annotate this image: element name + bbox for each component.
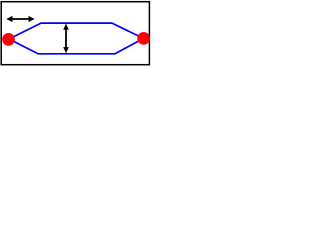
wire top path (blue): [9, 23, 144, 39]
node left (red dot): [2, 33, 15, 46]
horizontal double arrow: [6, 16, 34, 22]
node right (red dot): [137, 32, 150, 45]
vertical double arrow: [63, 24, 69, 54]
wire bottom path (blue): [9, 38, 144, 53]
border frame box: [1, 2, 149, 65]
background: [0, 0, 154, 82]
